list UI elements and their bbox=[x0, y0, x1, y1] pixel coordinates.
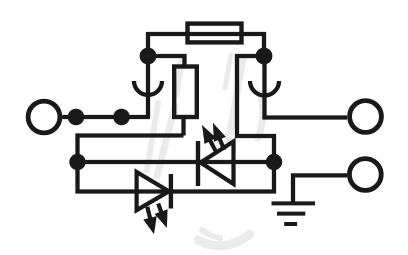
LED D2 light arrow 2 bbox=[155, 204, 167, 227]
wire indicator loop bbox=[78, 136, 275, 192]
LED D2 light arrow 1 bbox=[144, 207, 156, 233]
terminal X3 (bottom right) bbox=[349, 159, 381, 191]
wire resistor top feed bbox=[148, 56, 185, 67]
watermark bbox=[147, 55, 263, 246]
ground bbox=[272, 203, 316, 224]
junction dot C2 bbox=[266, 154, 282, 170]
test socket arc left bbox=[134, 81, 162, 95]
terminal X2 (right) bbox=[350, 101, 382, 133]
wire middle branch bbox=[78, 160, 275, 164]
junction dot C1 bbox=[69, 154, 85, 170]
wire main line bbox=[62, 115, 150, 119]
resistor R1 bbox=[174, 67, 197, 118]
wire resistor bottom stub bbox=[181, 117, 185, 136]
wire connector B2 to C2 bbox=[237, 56, 274, 162]
junction dot B2 bbox=[256, 48, 273, 65]
LED D1 light arrow 2 bbox=[214, 124, 226, 150]
LED D2 triangle bbox=[137, 172, 169, 210]
fuse F1 bbox=[188, 24, 242, 43]
LED D1 triangle bbox=[201, 142, 234, 185]
LED D1 cathode bar bbox=[196, 141, 200, 186]
wire fuse loop bbox=[148, 34, 264, 56]
wire right riser to terminal bbox=[265, 56, 348, 118]
test socket arc right bbox=[250, 81, 279, 96]
LED D2 cathode bar bbox=[169, 174, 173, 209]
terminal X1 (left) bbox=[28, 101, 60, 133]
LED D1 light arrow 1 bbox=[203, 126, 216, 151]
junction dot B1 bbox=[140, 48, 157, 65]
junction dot bbox=[113, 109, 130, 126]
wire left riser bbox=[146, 56, 150, 117]
junction dot bbox=[68, 109, 85, 126]
wire ground feed bbox=[293, 175, 347, 202]
